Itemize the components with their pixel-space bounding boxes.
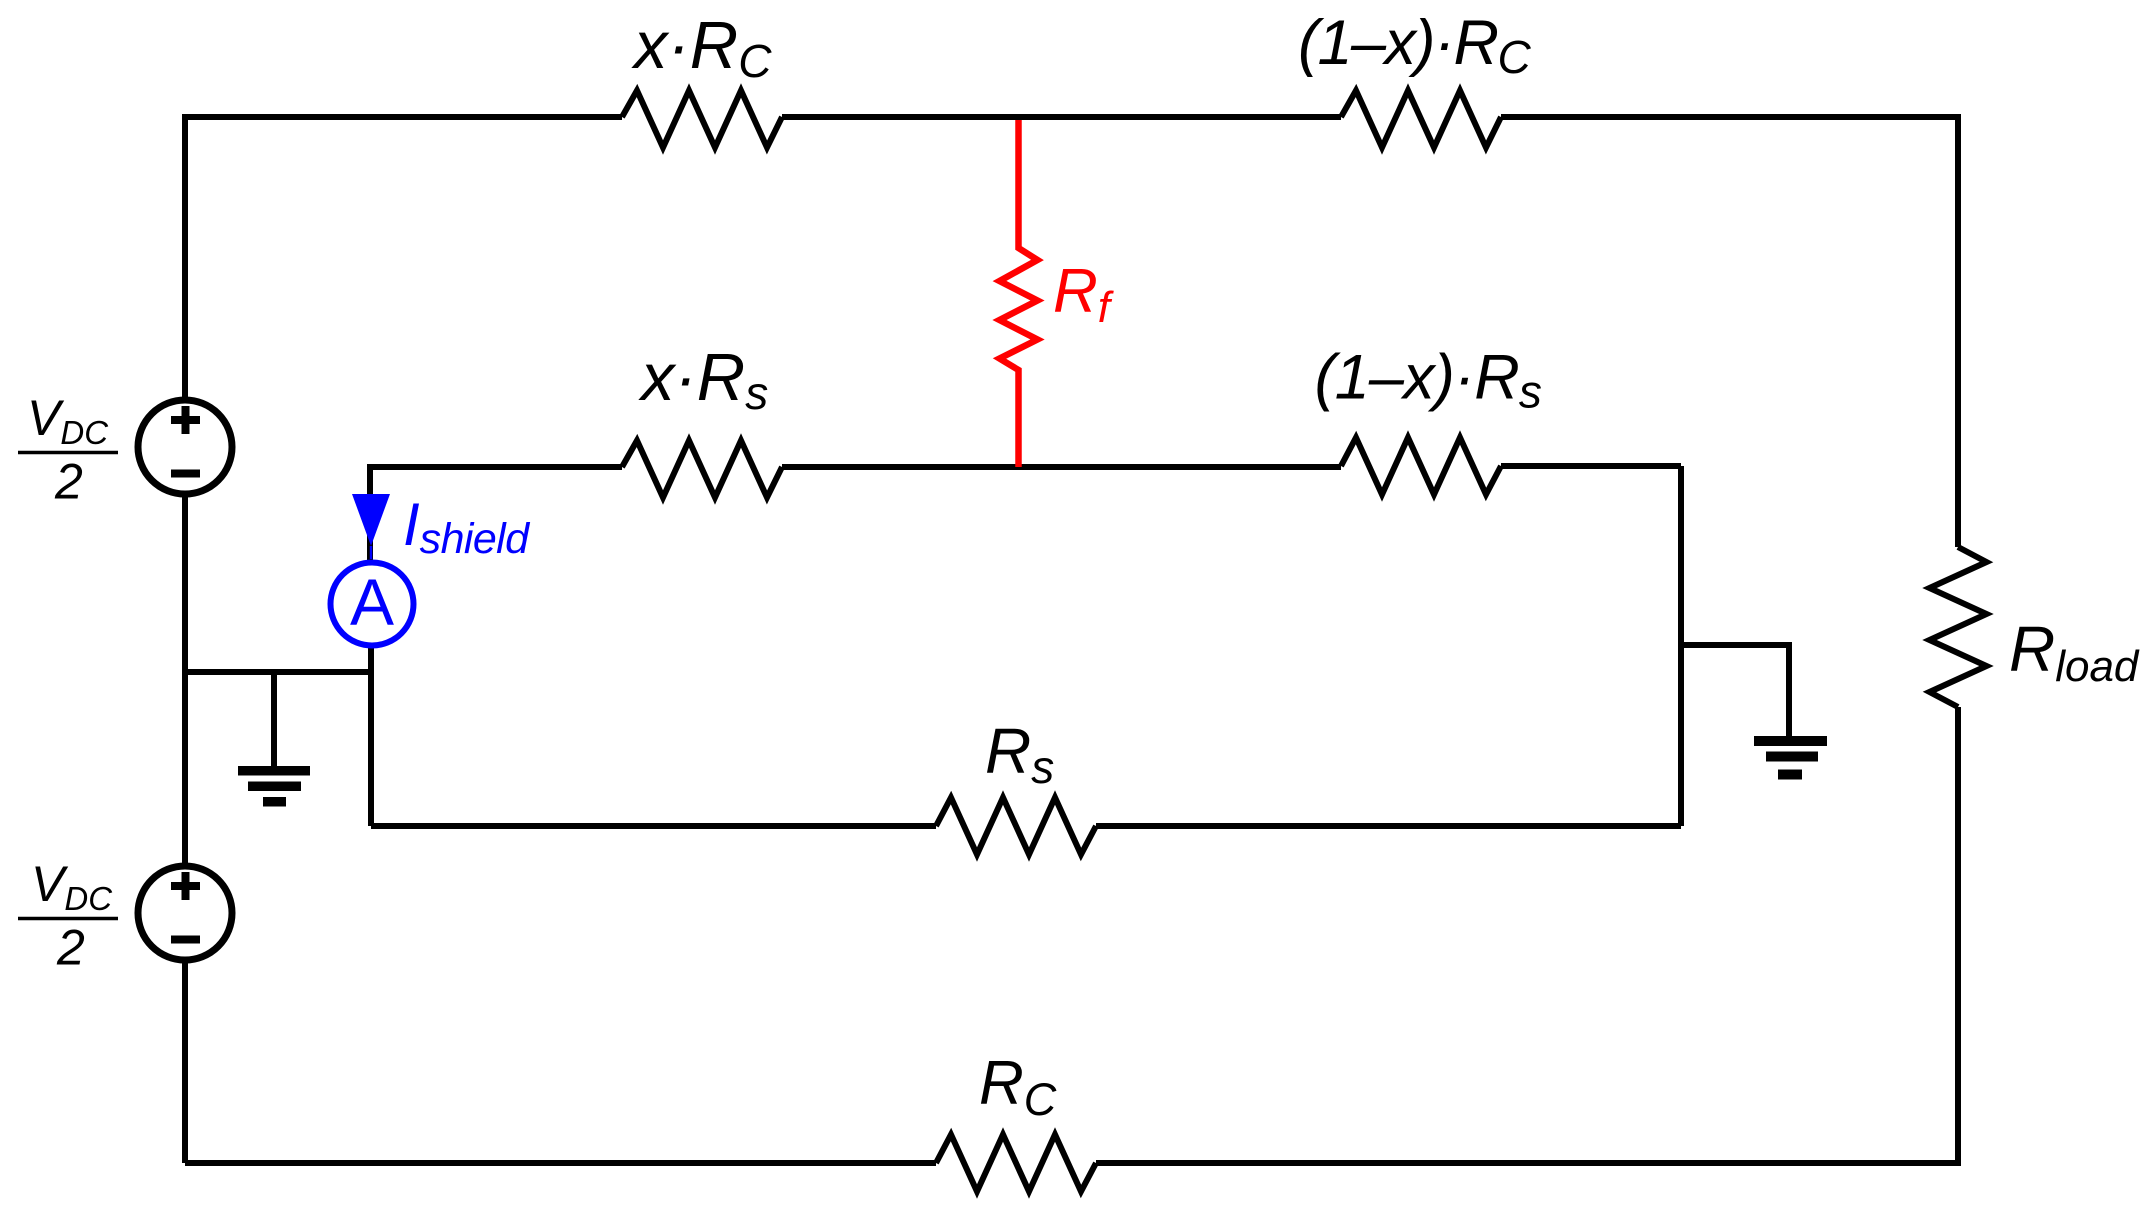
current arrow I_shield (blue) [352,494,390,546]
wire right rail lower [1955,707,1961,1163]
ground left stem [271,672,277,766]
ground right [1754,736,1827,746]
ground left [238,766,310,776]
voltage source V_DC/2 bottom [138,866,232,960]
wire left rail above top source [182,114,188,400]
wire top right segment [1501,114,1958,120]
svg-text:(1–x)·Rs: (1–x)·Rs [1315,343,1542,418]
wire middle center segment [782,464,1341,470]
svg-text:A: A [350,565,394,639]
wire bottom left segment [185,1160,936,1166]
wire top middle segment [782,114,1341,120]
resistor R_C bottom [936,1135,1096,1192]
wire inner bottom left segment [371,823,936,829]
wire middle right segment [1501,463,1681,469]
svg-text:2: 2 [56,920,85,976]
resistor R_f (red) [1000,120,1038,467]
svg-text:(1–x)·RC: (1–x)·RC [1298,8,1532,83]
wire middle left segment [367,464,622,470]
wire inner bottom right segment [1096,823,1681,829]
wire left rail below bottom source [182,960,188,1163]
ground right stub wire [1681,645,1789,736]
svg-text:2: 2 [54,454,83,510]
wire bottom right segment [1096,1160,1958,1163]
resistor R_load [1930,547,1987,707]
resistor (1-x)·R_C [1341,91,1501,148]
wire top left segment [185,114,622,120]
ammeter A [331,563,414,646]
wire inner right rail [1678,466,1684,826]
resistor x·R_C [622,91,782,148]
wire ammeter branch vertical [367,467,372,826]
wire junction horizontal [185,669,370,675]
resistor x·R_s [622,441,782,498]
resistor (1-x)·R_s [1341,438,1501,495]
wire left rail between sources [182,494,188,866]
wire right rail upper [1955,114,1961,547]
voltage source V_DC/2 top [138,400,232,494]
resistor R_s bottom [936,798,1096,855]
